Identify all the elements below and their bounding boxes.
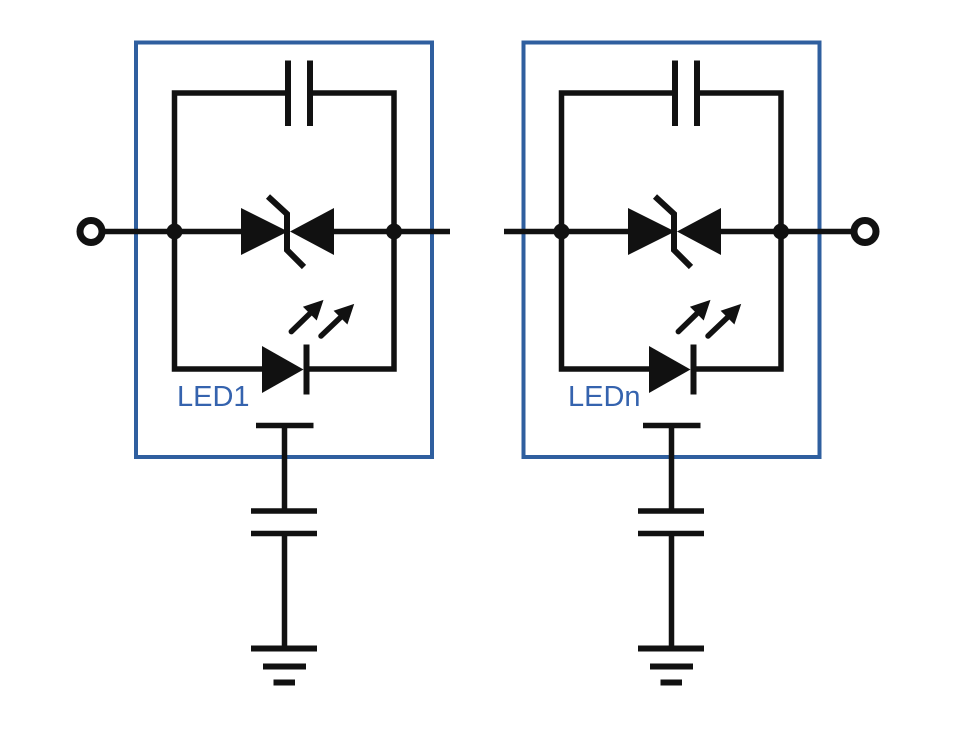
capacitor C (top, right module) xyxy=(675,61,697,127)
LED Dn symbol xyxy=(649,345,694,395)
capacitor C2 (to ground, right module) xyxy=(638,511,704,534)
wire: left rail (top corner to bottom corner) with top and bottom runs xyxy=(175,93,286,369)
wire: left rail (right module) xyxy=(562,93,673,369)
TVS diode (right module) xyxy=(628,197,721,268)
output terminal (right) xyxy=(854,221,876,243)
module outline box LED1 xyxy=(136,43,432,458)
wire: middle row right segment to output xyxy=(720,229,853,235)
wire: middle row left segment xyxy=(175,229,243,235)
LED arrow 2 (right module) xyxy=(708,304,741,336)
module outline box LEDn xyxy=(524,43,820,458)
input terminal (left) xyxy=(80,221,102,243)
wire: pin down to capacitor xyxy=(282,426,288,514)
bottom pin T-bar (right module) xyxy=(643,423,701,429)
wire: middle row right segment + external stub xyxy=(333,229,450,235)
junction node (left rail, mid row) xyxy=(167,224,183,240)
LED arrow 1 (right module) xyxy=(678,300,710,332)
ground symbol (right module) xyxy=(638,649,704,683)
wire: left stub into right module xyxy=(504,229,565,235)
capacitor C (top, bypass) xyxy=(288,61,310,127)
wire: left terminal to left rail xyxy=(105,229,178,235)
svg-text:LEDn: LEDn xyxy=(568,381,641,413)
junction node (right rail, mid row) xyxy=(386,224,402,240)
wire: pin down to capacitor (right module) xyxy=(669,426,675,514)
wire: right rail (right module) xyxy=(696,93,781,369)
wire: capacitor to ground (right module) xyxy=(669,534,675,652)
wire: right rail with top and bottom runs xyxy=(309,93,394,369)
LED arrow 1 xyxy=(291,300,323,332)
LED arrow 2 xyxy=(321,304,354,336)
wire: capacitor to ground xyxy=(282,534,288,652)
wire: middle row left segment (right module) xyxy=(562,229,630,235)
svg-text:LED1: LED1 xyxy=(177,381,250,413)
TVS diode (bidirectional) xyxy=(241,197,334,268)
junction node (left rail, right module) xyxy=(554,224,570,240)
ground symbol xyxy=(251,649,317,683)
bottom pin T-bar xyxy=(256,423,314,429)
capacitor C2 (to ground) xyxy=(251,511,317,534)
junction node (right rail, right module) xyxy=(773,224,789,240)
LED D1 symbol xyxy=(262,345,307,395)
